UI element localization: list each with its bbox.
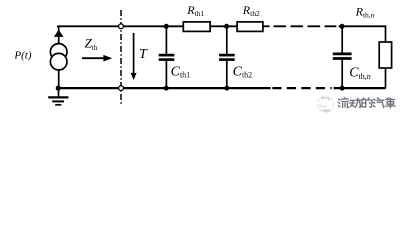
ground symbol bar 1 <box>48 96 68 98</box>
node junction dot 2 on top rail <box>224 24 229 29</box>
capacitor C_th1 bottom lead <box>165 61 167 89</box>
wire bottom rail middle segment <box>124 87 271 89</box>
glyph 流 <box>338 98 348 108</box>
current source P(t) lower circle <box>50 53 67 70</box>
glyph 车 <box>385 98 395 108</box>
node junction dot n on bottom rail <box>340 86 345 91</box>
ground symbol bar 2 <box>52 100 64 102</box>
watermark logo faint circle <box>318 96 334 112</box>
capacitor C_th,n bottom lead <box>341 60 343 89</box>
node junction dot 1 on top rail <box>164 24 169 29</box>
wire top rail right segment to R_th,n corner <box>339 25 386 27</box>
resistor R_th1 box <box>183 22 210 32</box>
wire bottom rail right segment to R_th,n corner <box>334 87 386 89</box>
wire top rail segment R_th1 to R_th2 <box>210 25 238 27</box>
wire top rail dashed continuation <box>274 25 337 27</box>
svg-text:P(t): P(t) <box>13 49 31 61</box>
wire bottom rail dashed continuation <box>272 87 331 89</box>
watermark text 流动的汽车 (drawn as vector strokes) <box>338 98 395 108</box>
capacitor C_th,n top plate <box>333 53 352 56</box>
capacitor C_th2 bottom plate <box>219 58 235 61</box>
resistor R_th,n bottom lead to bottom rail <box>385 68 387 89</box>
resistor R_th2 box <box>237 22 263 32</box>
glyph 的 <box>362 98 372 107</box>
capacitor C_th2 top plate <box>219 54 235 57</box>
capacitor C_th1 top plate <box>159 54 175 57</box>
svg-text:T: T <box>139 47 148 62</box>
wire top rail middle segment (plane to R_th1) <box>124 25 184 27</box>
glyph 动 <box>350 98 361 107</box>
current source P(t) upper circle <box>50 44 67 61</box>
wire top rail stub after R_th2 <box>263 25 270 27</box>
capacitor C_th2 bottom lead <box>226 61 228 89</box>
node junction dot at source on bottom rail <box>56 86 61 91</box>
node junction dot n on top rail <box>340 24 345 29</box>
capacitor C_th,n bottom plate <box>333 57 352 60</box>
node junction dot 2 on bottom rail <box>224 86 229 91</box>
wire top rail left segment (source corner to measurement plane) <box>57 25 119 27</box>
current source P(t) arrow head (upward) <box>54 30 64 37</box>
capacitor C_th,n top lead <box>341 26 343 53</box>
ground symbol bar 3 <box>55 104 61 106</box>
wire bottom rail left segment <box>57 87 119 89</box>
node open circle on top rail at plane <box>119 24 124 29</box>
arrow Z_th (pointing right) <box>82 57 104 59</box>
resistor R_th,n top lead (corner from top rail) <box>385 25 387 42</box>
capacitor C_th1 bottom plate <box>159 58 175 61</box>
ground symbol stub <box>58 88 60 96</box>
arrow T (pointing down to bottom rail) <box>133 33 135 75</box>
capacitor C_th2 top lead <box>226 26 228 54</box>
measurement plane dash-dot line <box>120 10 122 106</box>
current source P(t) lower lead to bottom rail <box>58 70 60 88</box>
current source P(t) vertical lead from top rail <box>58 26 60 45</box>
node open circle on bottom rail at plane <box>119 86 124 91</box>
capacitor C_th1 top lead <box>165 26 167 54</box>
glyph 汽 <box>373 98 384 107</box>
resistor R_th,n box (vertical) <box>379 42 391 68</box>
node junction dot 1 on bottom rail <box>164 86 169 91</box>
